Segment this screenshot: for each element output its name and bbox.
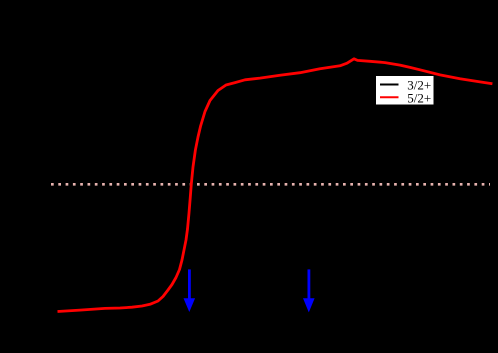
dotted reference line <box>51 183 490 186</box>
svg-text:5/2+: 5/2+ <box>407 90 431 105</box>
legend box <box>376 76 435 106</box>
curve 5/2+ <box>58 59 493 312</box>
legend sample 5/2+ <box>380 96 399 98</box>
arrow 2 <box>303 269 315 312</box>
legend sample 3/2+ <box>380 84 399 86</box>
arrow 1 <box>184 269 196 312</box>
